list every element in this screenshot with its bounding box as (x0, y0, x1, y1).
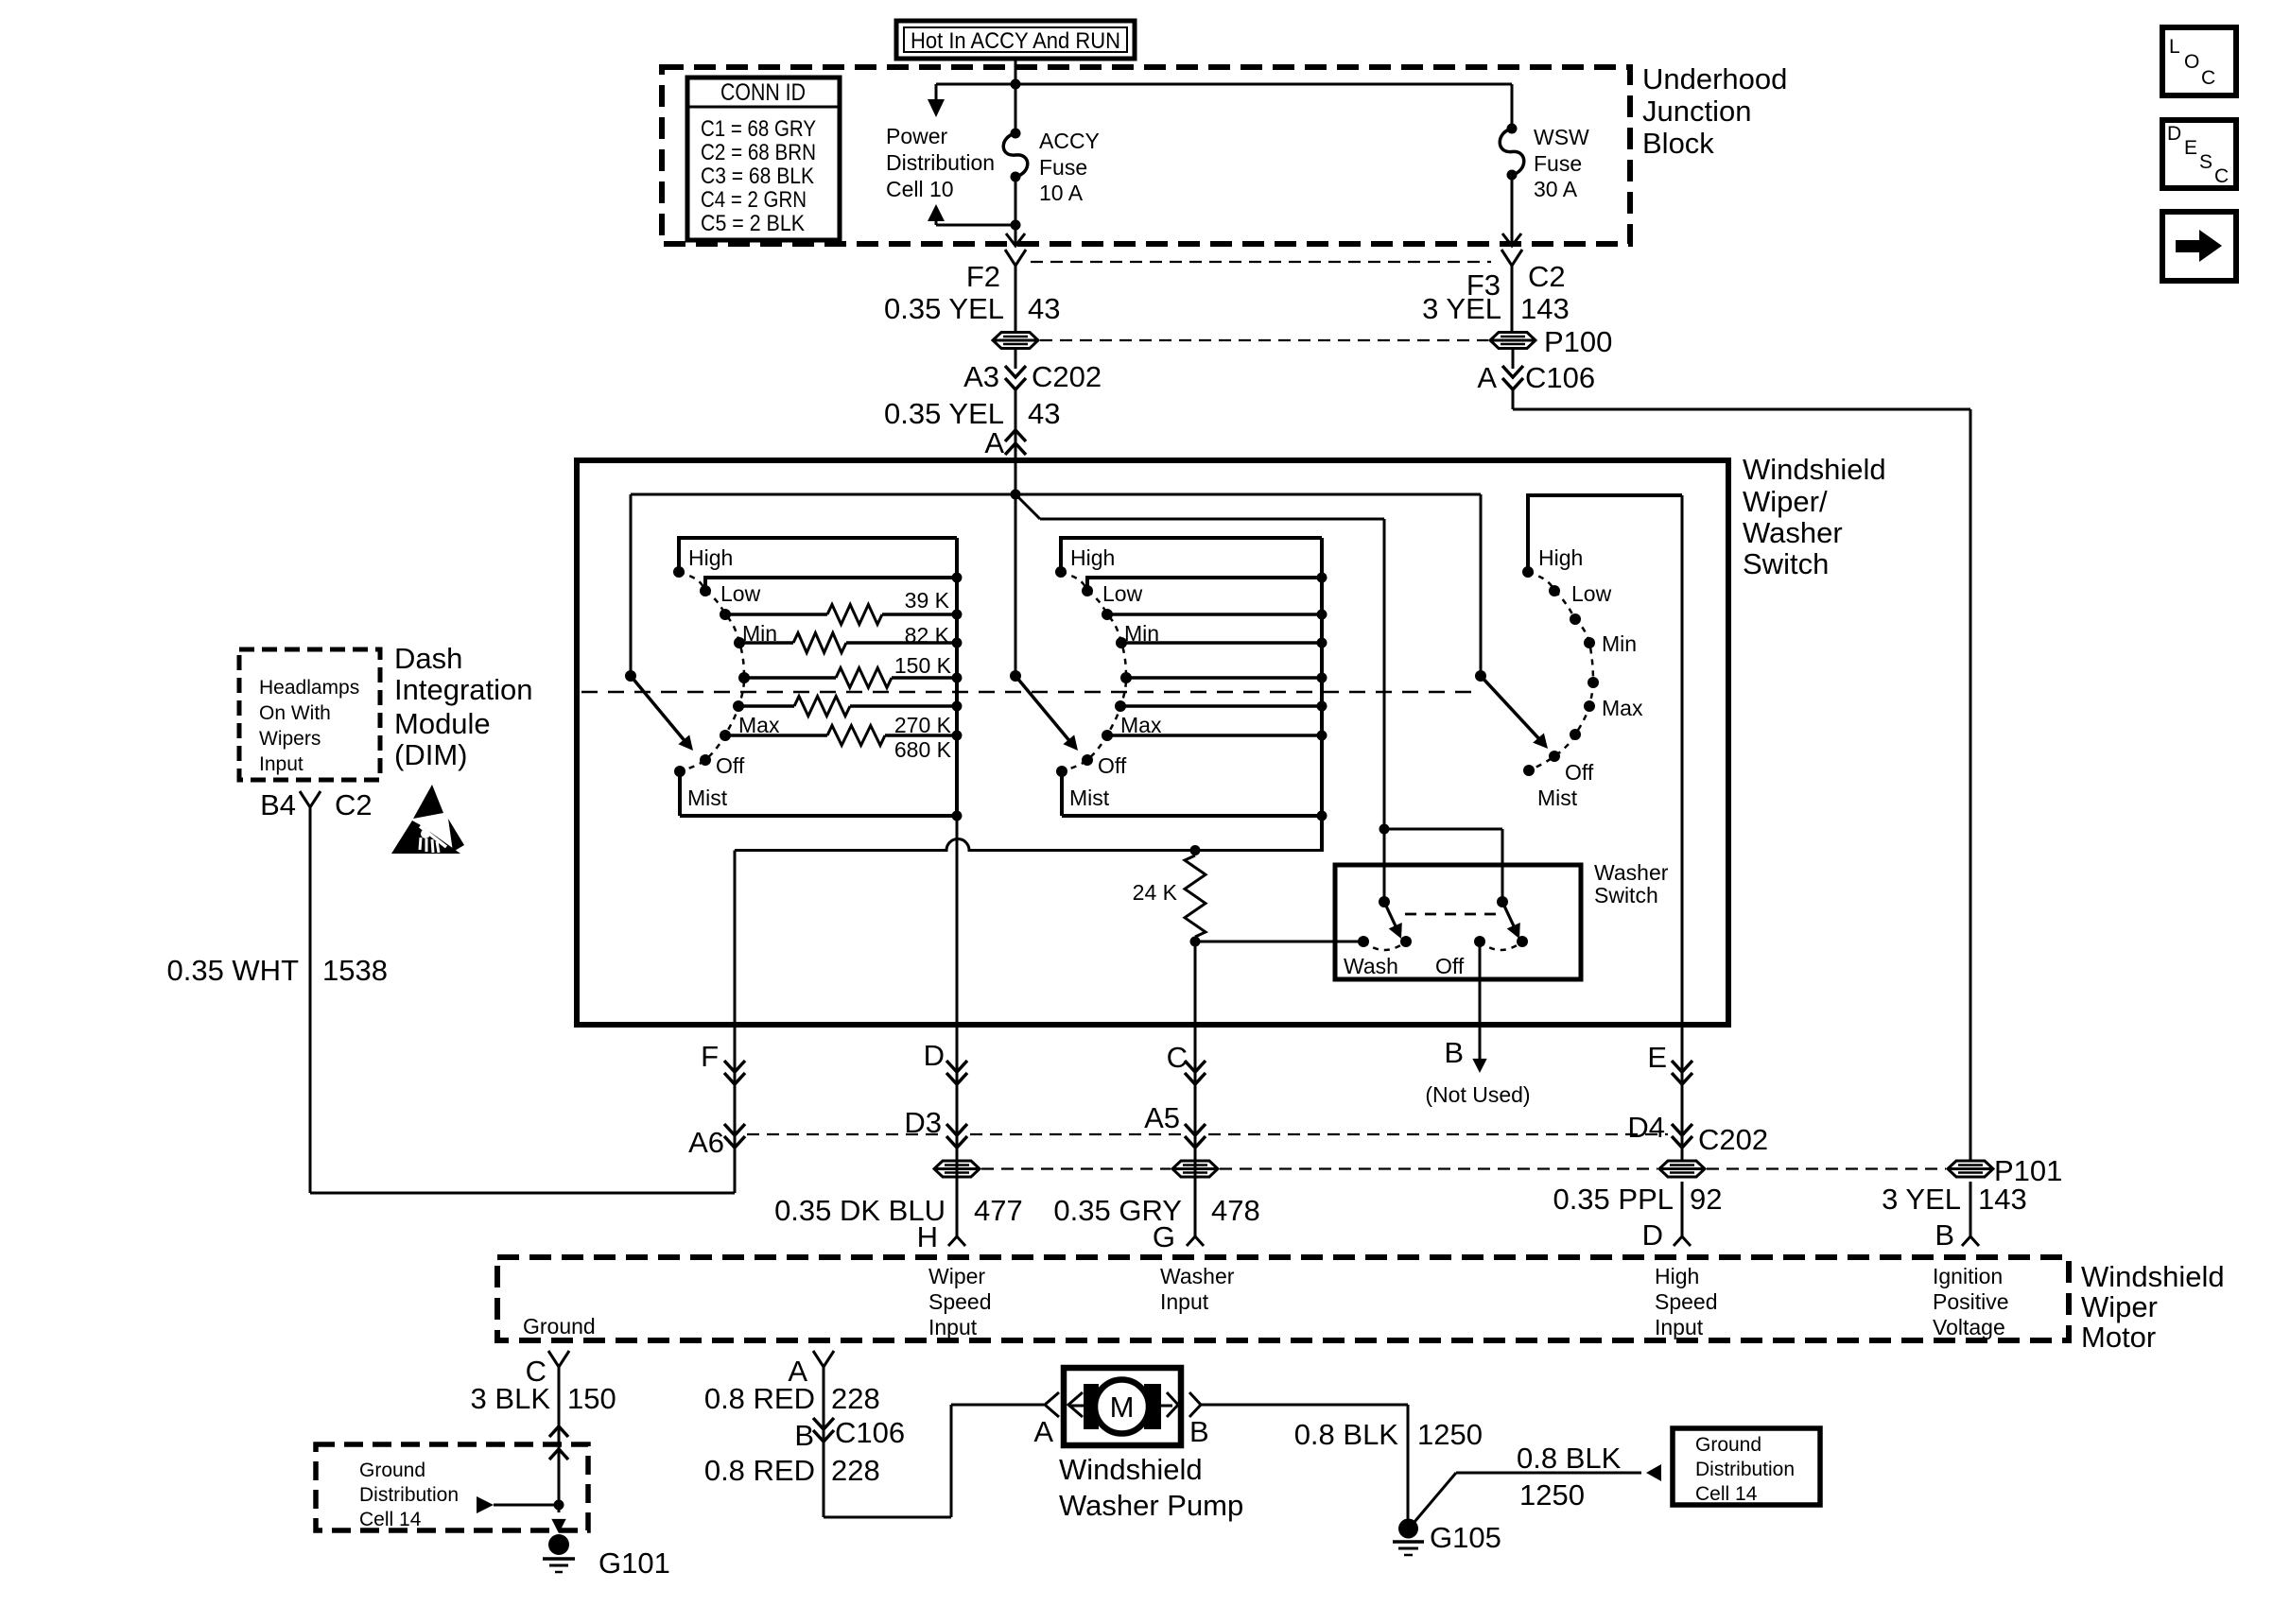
motor pin H (917, 1220, 965, 1253)
svg-text:L: L (2169, 36, 2180, 58)
motor pin G (1153, 1220, 1204, 1253)
svg-text:Distribution: Distribution (1695, 1459, 1795, 1480)
svg-text:C: C (2214, 165, 2229, 187)
svg-text:3 BLK: 3 BLK (471, 1382, 551, 1415)
resistor 150 K (894, 653, 952, 678)
label: 0.35 YEL 43 (884, 292, 1060, 325)
connector C106 pin B (794, 1416, 905, 1452)
label: G101 (599, 1546, 670, 1580)
svg-text:680 K: 680 K (894, 737, 952, 762)
svg-text:C2: C2 (335, 788, 373, 821)
svg-text:Off: Off (1565, 760, 1594, 785)
svg-text:Ground: Ground (1695, 1434, 1761, 1456)
mechanical link (long dashed line) (581, 691, 1481, 694)
svg-text:C: C (1167, 1041, 1188, 1074)
LOC reference box (2162, 27, 2236, 95)
label: Wash / Off (1344, 954, 1465, 978)
washer switch Wash contacts (1358, 936, 1412, 950)
svg-text:Fuse: Fuse (1039, 155, 1087, 180)
switch 2 bus junction dots (1317, 573, 1327, 821)
label: Washer Switch (1594, 860, 1669, 907)
connector C202 pin D3 (904, 1106, 967, 1148)
svg-text:CONN ID: CONN ID (720, 79, 806, 106)
svg-text:Wash: Wash (1344, 954, 1398, 978)
windshield wiper motor (dashed box) (497, 1257, 2069, 1340)
inline connector P101 on D wire (934, 1161, 980, 1177)
svg-text:High: High (1070, 545, 1115, 570)
svg-text:B: B (1935, 1218, 1954, 1252)
wire: washer feed branch (1015, 494, 1384, 902)
svg-text:A: A (1477, 361, 1497, 394)
svg-text:D: D (924, 1039, 945, 1072)
svg-text:C3 = 68 BLK: C3 = 68 BLK (701, 164, 814, 189)
svg-text:E: E (2184, 137, 2197, 159)
svg-text:Power: Power (886, 124, 948, 148)
label: 0.35 GRY 478 (1053, 1194, 1259, 1227)
wire: 24K tap to pin C (1194, 942, 1197, 1236)
svg-text:Ignition: Ignition (1933, 1264, 2003, 1288)
motor pin D (1642, 1218, 1691, 1252)
wire 0.35 YEL 43 (F2 to C202) (1015, 266, 1017, 332)
washer switch right-leg feed (1384, 829, 1502, 902)
svg-text:ACCY: ACCY (1039, 129, 1100, 153)
label: Windshield Wiper Motor (2081, 1260, 2225, 1354)
svg-text:Input: Input (259, 753, 304, 775)
inline connector P101 on C wire (1172, 1161, 1218, 1177)
washer switch left pivot (1379, 896, 1390, 907)
connector into ground distribution (549, 1426, 568, 1460)
svg-text:Min: Min (742, 621, 777, 646)
washer pump motor (1068, 1380, 1172, 1434)
svg-text:A: A (984, 426, 1004, 459)
underhood junction block (dashed box) (662, 67, 1630, 244)
svg-text:C106: C106 (835, 1416, 905, 1449)
label: ACCY Fuse 10 A (1039, 129, 1100, 205)
svg-text:A5: A5 (1144, 1101, 1180, 1134)
connector pin F2 of C2 (966, 250, 1026, 293)
svg-text:Off: Off (716, 753, 745, 778)
washer switch mechanical link (dashed) (1405, 913, 1496, 916)
connector C202 pin A5 (1144, 1101, 1206, 1148)
ground distribution cell 14 (dashed box, left) (316, 1444, 588, 1530)
inline connector P100 (left half) (993, 333, 1038, 349)
label: Ground (motor) (523, 1314, 596, 1339)
node: A feed junction (1011, 490, 1021, 500)
label: 0.8 RED 228 (upper) (704, 1382, 880, 1415)
svg-text:24 K: 24 K (1133, 880, 1178, 905)
svg-text:39 K: 39 K (905, 588, 950, 613)
wire 0.8 RED 228 (upper) (823, 1367, 825, 1517)
svg-text:Switch: Switch (1743, 547, 1829, 580)
svg-text:G101: G101 (599, 1546, 670, 1580)
svg-text:82 K: 82 K (905, 623, 950, 648)
wire 0.8 BLK 1250 (1201, 1405, 1408, 1519)
motor pin B (1935, 1218, 1979, 1252)
svg-text:A6: A6 (688, 1126, 724, 1159)
label: Headlamps On With Wipers Input (259, 677, 359, 775)
svg-text:0.35 WHT: 0.35 WHT (166, 954, 299, 987)
svg-text:Windshield: Windshield (2081, 1260, 2225, 1293)
label: Underhood Junction Block (1642, 62, 1787, 160)
svg-text:Wiper: Wiper (928, 1264, 985, 1288)
wire: return branch below fuse (936, 224, 1015, 227)
svg-text:On With: On With (259, 702, 331, 724)
headlamps on with wipers input (dashed box) (239, 649, 380, 780)
svg-text:D3: D3 (904, 1106, 942, 1139)
svg-text:A3: A3 (963, 360, 999, 393)
label: 0.8 BLK 1250 (second) (1517, 1442, 1622, 1512)
svg-text:Washer Pump: Washer Pump (1059, 1489, 1243, 1522)
svg-text:Distribution: Distribution (886, 150, 995, 175)
svg-text:H: H (917, 1220, 938, 1253)
wire 3 YEL 143 (F3 down) (1511, 266, 1514, 332)
wire 3 YEL 143 to wiper motor B (1513, 389, 1970, 1236)
wire: branch to power distribution (left) (936, 84, 1015, 100)
svg-text:M: M (1110, 1391, 1135, 1424)
svg-text:143: 143 (1978, 1183, 2027, 1216)
svg-text:Motor: Motor (2081, 1321, 2156, 1354)
svg-text:0.8 BLK: 0.8 BLK (1517, 1442, 1622, 1475)
svg-text:Windshield: Windshield (1059, 1453, 1203, 1486)
svg-text:Underhood: Underhood (1642, 62, 1787, 95)
node: 24K resistor bottom (1190, 937, 1201, 947)
wire: mist return riser to pin F (734, 851, 737, 1149)
DESC reference box (2162, 120, 2236, 188)
svg-text:30 A: 30 A (1534, 177, 1578, 201)
fuse: ACCY Fuse 10 A (1003, 129, 1028, 182)
svg-text:43: 43 (1028, 292, 1060, 325)
label: 0.35 PPL 92 (1553, 1183, 1722, 1216)
svg-text:Speed: Speed (928, 1289, 992, 1314)
connector P101 dashed link + label (981, 1154, 2062, 1187)
connector C2 pin B4 (DIM) (260, 788, 373, 821)
svg-text:150: 150 (567, 1382, 616, 1415)
resistor 82 K (905, 623, 950, 648)
svg-text:Input: Input (1655, 1315, 1704, 1339)
svg-text:Max: Max (738, 713, 780, 737)
svg-text:P100: P100 (1544, 325, 1612, 358)
svg-text:92: 92 (1690, 1183, 1722, 1216)
wire: G105 to ground distribution cell (1414, 1473, 1641, 1522)
fuse: WSW Fuse 30 A (1500, 124, 1524, 181)
wire: top bus to WSW fuse (1015, 84, 1512, 129)
label: Power Distribution Cell 10 (886, 124, 995, 201)
svg-text:270 K: 270 K (894, 713, 952, 737)
label: 3 BLK 150 (471, 1382, 616, 1415)
arrow: from power distribution cell (up) (928, 204, 945, 225)
label: 0.8 BLK 1250 (1294, 1418, 1483, 1451)
svg-text:143: 143 (1520, 292, 1570, 325)
svg-text:G105: G105 (1430, 1521, 1501, 1554)
label: G105 (1430, 1521, 1501, 1554)
svg-text:Hot In ACCY And RUN: Hot In ACCY And RUN (911, 28, 1120, 54)
wire: switch3 pivot riser (1480, 494, 1483, 676)
wire: A feed into switch (1015, 463, 1017, 676)
svg-text:Wipers: Wipers (259, 728, 321, 750)
svg-text:Windshield: Windshield (1743, 453, 1886, 486)
svg-text:(DIM): (DIM) (394, 738, 467, 771)
svg-text:High: High (1538, 545, 1583, 570)
wire 0.35 YEL 43 (C202 to switch) (1015, 389, 1017, 463)
svg-text:Low: Low (720, 581, 761, 606)
svg-text:228: 228 (831, 1382, 880, 1415)
svg-text:C2 = 68 BRN: C2 = 68 BRN (701, 140, 816, 165)
label: WSW Fuse 30 A (1534, 125, 1589, 201)
svg-text:Off: Off (1435, 954, 1465, 978)
connector P100 dashed link + label (1040, 325, 1612, 358)
washer switch left wiper arrow (1384, 902, 1402, 939)
svg-text:High: High (1655, 1264, 1699, 1288)
switch 3 contact dots (1522, 566, 1599, 776)
wire: pin F to DIM routing (734, 1148, 737, 1193)
svg-text:B: B (1189, 1415, 1209, 1448)
svg-text:Fuse: Fuse (1534, 151, 1582, 176)
svg-text:0.8 RED: 0.8 RED (704, 1382, 815, 1415)
windshield wiper/washer switch (box) (577, 460, 1728, 1025)
node: below ACCY fuse (1011, 220, 1021, 231)
svg-text:Block: Block (1642, 127, 1714, 160)
svg-text:B: B (794, 1419, 814, 1452)
switch pin E (1647, 1041, 1692, 1084)
arrow: into ground distribution (right) (1646, 1464, 1661, 1481)
washer pump terminal A (1033, 1392, 1083, 1448)
wire: pivot feed rail (631, 493, 1481, 496)
label: 0.35 WHT 1538 (166, 954, 388, 987)
inline connector P101 on E wire (1659, 1161, 1705, 1177)
wire below P100 right (1512, 349, 1515, 369)
wire 3 BLK 150 (558, 1367, 561, 1512)
svg-text:Wiper/: Wiper/ (1743, 485, 1828, 518)
arrow: wire to ground G101 (551, 1519, 565, 1533)
svg-text:Min: Min (1124, 621, 1159, 646)
resistor 39 K (905, 588, 950, 613)
svg-text:3 YEL: 3 YEL (1882, 1183, 1961, 1216)
node: 24K resistor tap (1190, 845, 1201, 855)
wire: pump feed routing (824, 1405, 1044, 1517)
svg-text:(Not Used): (Not Used) (1425, 1082, 1530, 1107)
svg-text:C4 = 2 GRN: C4 = 2 GRN (701, 187, 807, 213)
label: Windshield Wiper/Washer Switch (1743, 453, 1886, 580)
svg-text:43: 43 (1028, 397, 1060, 430)
inline connector P100 (right half) (1490, 333, 1536, 349)
wire below P100 left (1015, 349, 1017, 369)
svg-text:Low: Low (1102, 581, 1143, 606)
next page arrow box (2162, 212, 2236, 281)
arrow: ground distribution tap (477, 1496, 554, 1513)
svg-text:A: A (1033, 1415, 1053, 1448)
svg-text:Max: Max (1120, 713, 1162, 737)
label: 0.35 DK BLU 477 (774, 1194, 1023, 1227)
svg-text:High: High (688, 545, 733, 570)
svg-text:Switch: Switch (1594, 883, 1658, 907)
switch pin D (924, 1039, 967, 1084)
svg-text:Voltage: Voltage (1933, 1315, 2005, 1339)
svg-text:477: 477 (974, 1194, 1023, 1227)
svg-text:228: 228 (831, 1454, 880, 1487)
wire: mist return with hop over D wire (735, 839, 1324, 851)
inline connector P101 on B wire (1948, 1161, 1993, 1177)
wire: switch1 pivot riser (630, 494, 633, 676)
svg-text:0.35 YEL: 0.35 YEL (884, 397, 1004, 430)
svg-text:Max: Max (1602, 696, 1643, 720)
svg-text:C202: C202 (1032, 360, 1102, 393)
label: Wiper Speed Input (928, 1264, 992, 1339)
resistor 680 K (894, 737, 952, 762)
washer switch feed node (1379, 824, 1390, 835)
svg-text:C106: C106 (1525, 361, 1595, 394)
svg-text:Mist: Mist (1537, 786, 1578, 810)
switch pin A (entering switch) (984, 426, 1026, 459)
svg-text:Washer: Washer (1743, 516, 1843, 549)
svg-text:Junction: Junction (1642, 95, 1751, 128)
switch 1 frame and contact rails (679, 538, 957, 816)
switch 2 frame and contact rails (1061, 538, 1322, 851)
switch 3 contact arc (dashed) (1528, 572, 1593, 770)
label: 0.35 YEL 43 (second) (884, 397, 1060, 430)
svg-text:Ground: Ground (359, 1460, 425, 1481)
svg-text:Cell 10: Cell 10 (886, 177, 954, 201)
wire 0.35 WHT 1538 (310, 807, 735, 1193)
arrow: to power distribution cell (down) (928, 99, 945, 117)
label: 3 YEL 143 (1422, 292, 1570, 325)
svg-text:E: E (1647, 1041, 1667, 1074)
svg-text:478: 478 (1211, 1194, 1260, 1227)
connector C202 pin A3 (963, 360, 1102, 393)
svg-text:1250: 1250 (1519, 1478, 1585, 1512)
svg-text:C1 = 68 GRY: C1 = 68 GRY (701, 116, 816, 142)
wire: switch1 bus to pin D (956, 816, 959, 1236)
switch 3 position labels (1537, 545, 1643, 810)
svg-text:D4: D4 (1627, 1111, 1665, 1144)
switch 2 contact dots (1055, 566, 1132, 777)
wire: resistor to washer switch wash contact (1195, 941, 1363, 943)
svg-text:O: O (2184, 51, 2199, 73)
wire: ACCY fuse output leaving junction block (1006, 177, 1025, 246)
label: B (Not Used) (1425, 1036, 1530, 1107)
svg-text:3 YEL: 3 YEL (1422, 292, 1501, 325)
svg-text:Washer: Washer (1160, 1264, 1235, 1288)
label: Ignition Positive Voltage (1933, 1264, 2009, 1339)
connector C2 (dashed link) (1031, 260, 1566, 293)
switch 3 High contact bracket to pin E (1528, 495, 1682, 1236)
node: ground wire junction (554, 1500, 564, 1511)
svg-text:F2: F2 (966, 260, 1000, 293)
svg-text:Module: Module (394, 707, 491, 740)
washer switch right pivot (1497, 896, 1508, 907)
svg-text:Wiper: Wiper (2081, 1290, 2158, 1323)
connector pin F3 of C2 (1466, 250, 1522, 302)
motor pin C (ground) (526, 1351, 569, 1388)
svg-text:150 K: 150 K (894, 653, 952, 678)
switch pin C (1167, 1041, 1206, 1084)
svg-text:Cell 14: Cell 14 (359, 1509, 422, 1530)
power feed label box: Hot In ACCY And RUN (896, 21, 1135, 59)
connector C202 pin D4 (1627, 1111, 1768, 1156)
svg-text:Cell 14: Cell 14 (1695, 1483, 1758, 1505)
svg-text:Distribution: Distribution (359, 1484, 459, 1506)
svg-text:Positive: Positive (1933, 1289, 2009, 1314)
svg-text:1538: 1538 (322, 954, 388, 987)
resistor 24 K (vertical) (1133, 855, 1206, 937)
washer switch Off contacts (1474, 936, 1528, 950)
switch 2 wiper arrow (1015, 676, 1078, 751)
ground distribution cell 14 (box, right) (1673, 1428, 1820, 1505)
switch 1 position labels (687, 545, 780, 810)
connector C202 dashed link (747, 1133, 1668, 1135)
wire: WSW fuse output leaving junction block (1502, 175, 1521, 246)
switch 1 pivot (625, 670, 636, 682)
svg-text:G: G (1153, 1220, 1175, 1253)
label: 0.8 RED 228 (lower) (704, 1454, 880, 1487)
svg-text:C2: C2 (1528, 260, 1566, 293)
svg-text:B4: B4 (260, 788, 296, 821)
svg-text:Speed: Speed (1655, 1289, 1718, 1314)
switch 2 position labels (1069, 545, 1162, 810)
washer switch right wiper arrow (1502, 902, 1520, 939)
switch 1 contact dots (673, 566, 750, 777)
label: Windshield Washer Pump (1059, 1453, 1243, 1522)
svg-text:D: D (2167, 123, 2181, 145)
svg-text:C202: C202 (1698, 1123, 1768, 1156)
svg-text:0.8 RED: 0.8 RED (704, 1454, 815, 1487)
label: High Speed Input (1655, 1264, 1718, 1339)
switch 1 contact arc (dashed) (679, 572, 744, 771)
svg-text:0.35 PPL: 0.35 PPL (1553, 1183, 1674, 1216)
wire: hot feed down from label box (1015, 59, 1017, 133)
ESD sensitive device symbol (391, 785, 464, 854)
label: 3 YEL 143 (motor feed) (1882, 1183, 2027, 1216)
label: Washer Input (1160, 1264, 1235, 1314)
svg-text:C5 = 2 BLK: C5 = 2 BLK (701, 211, 805, 236)
svg-text:Ground: Ground (523, 1314, 596, 1339)
switch 1 wiper arrow (631, 676, 693, 751)
label: Ground Distribution Cell 14 (right) (1695, 1434, 1795, 1505)
svg-text:Dash: Dash (394, 642, 462, 675)
svg-text:0.8 BLK: 0.8 BLK (1294, 1418, 1399, 1451)
switch pin F (701, 1040, 745, 1084)
svg-text:D: D (1642, 1218, 1663, 1252)
ground G101 (543, 1534, 575, 1572)
svg-text:Headlamps: Headlamps (259, 677, 359, 699)
svg-text:F: F (701, 1040, 719, 1073)
svg-text:10 A: 10 A (1039, 181, 1084, 205)
windshield washer pump (box) (1064, 1368, 1181, 1445)
ground G105 (1393, 1519, 1424, 1556)
svg-text:Input: Input (928, 1315, 978, 1339)
connector C106 pin A (1477, 361, 1595, 394)
washer pump terminal B (1167, 1392, 1209, 1448)
label: Ground Distribution Cell 14 (left) (359, 1460, 459, 1530)
svg-text:WSW: WSW (1534, 125, 1589, 149)
svg-text:Off: Off (1098, 753, 1127, 778)
svg-text:S: S (2199, 151, 2212, 173)
washer switch (box) (1335, 865, 1581, 979)
connector C202 pin A6 (688, 1124, 745, 1159)
switch 2 pivot (1010, 670, 1021, 682)
CONN ID table (687, 78, 840, 240)
svg-text:0.35 YEL: 0.35 YEL (884, 292, 1004, 325)
svg-text:Input: Input (1160, 1289, 1209, 1314)
motor pin A (washer pump feed) (788, 1351, 834, 1388)
switch 2 contact arc (dashed) (1061, 572, 1126, 771)
wire: washer switch output B (not used) (1472, 942, 1486, 1073)
svg-text:Integration: Integration (394, 673, 533, 706)
switch 3 pivot (1475, 670, 1486, 682)
svg-text:Mist: Mist (687, 786, 728, 810)
switch 3 wiper arrow (1481, 676, 1548, 749)
svg-text:Mist: Mist (1069, 786, 1110, 810)
svg-text:Low: Low (1571, 581, 1612, 606)
